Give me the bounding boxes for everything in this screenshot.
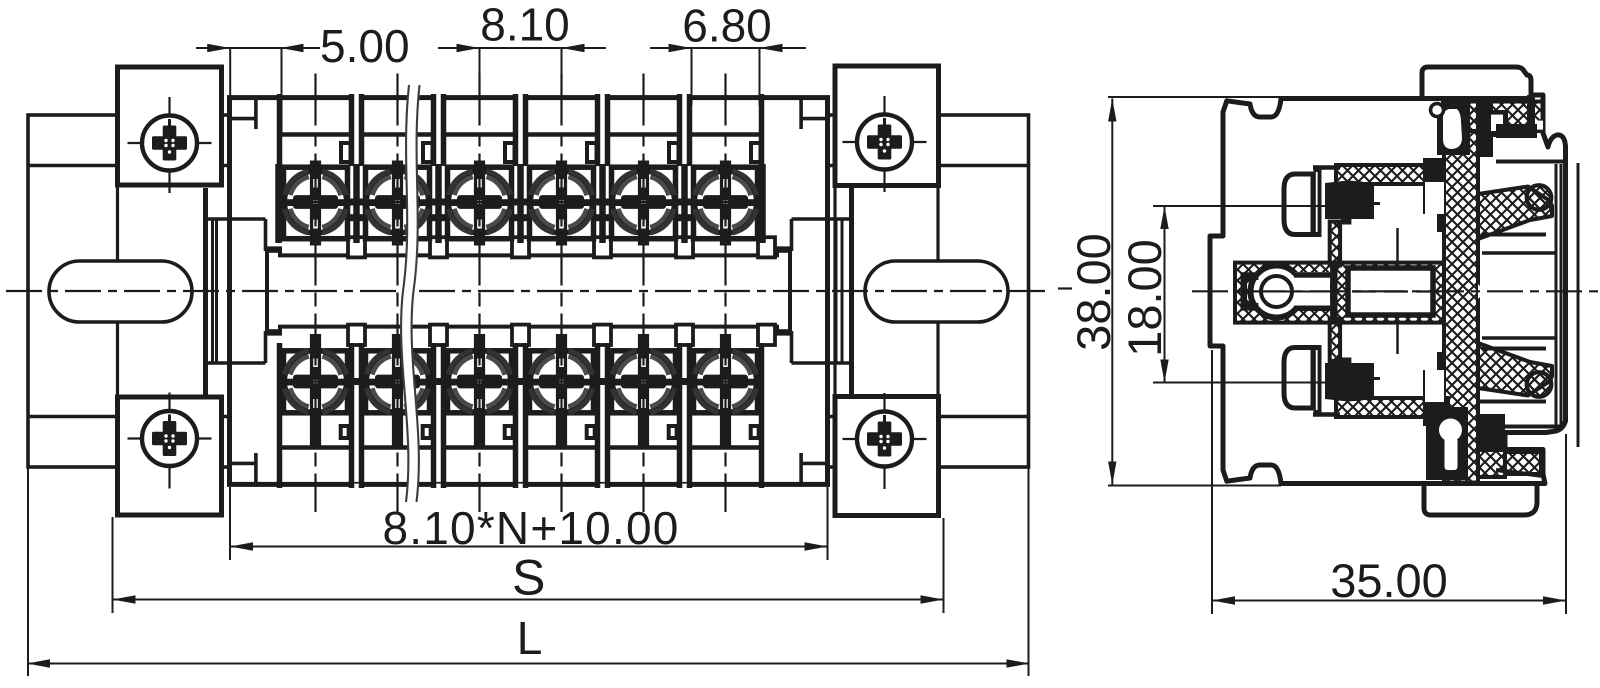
svg-text:38.00: 38.00 bbox=[1067, 233, 1120, 351]
svg-text:6.80: 6.80 bbox=[682, 0, 772, 52]
svg-text:S: S bbox=[512, 550, 545, 606]
svg-text:35.00: 35.00 bbox=[1330, 554, 1448, 607]
svg-text:18.00: 18.00 bbox=[1118, 239, 1171, 357]
svg-text:5.00: 5.00 bbox=[320, 20, 410, 72]
svg-text:8.10: 8.10 bbox=[480, 0, 570, 51]
svg-text:8.10*N+10.00: 8.10*N+10.00 bbox=[382, 502, 679, 554]
svg-text:L: L bbox=[517, 612, 543, 664]
